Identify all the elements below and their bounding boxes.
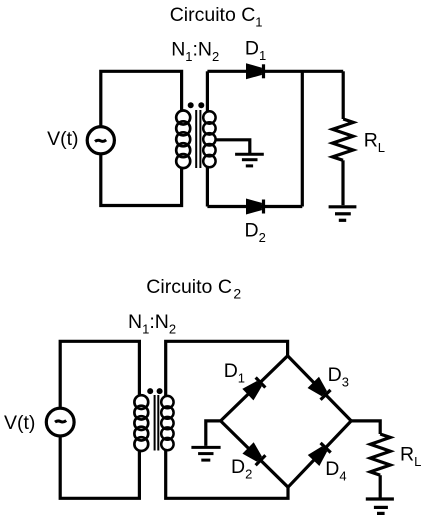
svg-text:V(t): V(t) bbox=[47, 128, 78, 150]
wire: C1 primary loop bottom bbox=[101, 154, 182, 206]
transformer T1 polarity dots bbox=[188, 102, 194, 108]
svg-text:D4: D4 bbox=[325, 458, 346, 484]
wire: bridge side top-right (D3 branch) bbox=[288, 356, 352, 421]
ground (C2 bridge reference) bbox=[191, 447, 220, 460]
svg-text:RL: RL bbox=[400, 444, 421, 470]
wire: C1 primary loop top (source to transformer) bbox=[101, 71, 182, 127]
svg-text:D3: D3 bbox=[328, 364, 349, 390]
wire: top rail to RL bbox=[342, 71, 345, 119]
transformer T2 secondary winding bbox=[161, 396, 173, 450]
diode D2 (bridge) bbox=[242, 442, 266, 466]
transformer T2 primary winding bbox=[134, 395, 148, 451]
transformer T1 secondary winding bbox=[203, 111, 215, 167]
source V(t) C1 bbox=[87, 127, 114, 154]
svg-text:Circuito C2: Circuito C2 bbox=[146, 276, 241, 302]
diode D1 bbox=[246, 63, 264, 79]
wire: C1 top rail through D1 bbox=[207, 70, 343, 73]
wire: bridge side bottom-right (D4 branch) bbox=[288, 421, 351, 487]
wire: C2 secondary top to bridge top vertex bbox=[166, 341, 288, 396]
wire: C1 secondary bottom lead bbox=[206, 168, 209, 207]
wire: bridge side left-bottom (D2 branch) bbox=[221, 421, 288, 487]
svg-text:Circuito C1: Circuito C1 bbox=[170, 4, 263, 30]
transformer T1 primary winding bbox=[176, 111, 190, 169]
diode D4 (bridge) bbox=[308, 442, 332, 466]
diode D3 (bridge) bbox=[308, 377, 332, 401]
wire: bridge right vertex to RL bbox=[351, 421, 380, 434]
wire: junction of D1/D2 cathodes bbox=[301, 71, 304, 206]
wire: C1 center tap to ground bbox=[215, 140, 250, 154]
svg-text:N1:N2: N1:N2 bbox=[128, 311, 176, 337]
resistor RL (C2) bbox=[370, 434, 390, 475]
svg-text:D1: D1 bbox=[224, 360, 245, 386]
wire: RL bottom to ground (C1) bbox=[341, 160, 344, 205]
wire: C1 bottom rail through D2 bbox=[207, 205, 302, 208]
wire: bridge side left-top (D1 branch) bbox=[221, 356, 288, 421]
transformer T2 polarity dots bbox=[147, 388, 153, 394]
wire: RL bottom to ground (C2) bbox=[379, 475, 382, 497]
transformer T2 core bbox=[154, 395, 156, 451]
source V(t) C2 bbox=[46, 408, 74, 436]
wire: C1 secondary top lead bbox=[206, 71, 209, 111]
svg-text:D1: D1 bbox=[245, 37, 266, 63]
resistor RL (C1) bbox=[333, 119, 354, 160]
svg-text:D2: D2 bbox=[245, 220, 266, 246]
diode D1 (bridge) bbox=[242, 377, 266, 401]
wire: C2 primary loop bottom bbox=[60, 436, 139, 498]
wire: C2 secondary bottom to bridge bottom vertex bbox=[166, 450, 288, 499]
ground (C1 center tap) bbox=[235, 154, 264, 166]
transformer T1 core bbox=[195, 110, 197, 168]
svg-text:RL: RL bbox=[364, 130, 385, 156]
wire: bridge left vertex to ground bbox=[206, 421, 221, 446]
ground (C2 load) bbox=[366, 499, 394, 513]
ground (C1 load) bbox=[329, 207, 357, 221]
svg-text:V(t): V(t) bbox=[4, 412, 35, 434]
svg-text:D2: D2 bbox=[231, 456, 252, 482]
diode D2 bbox=[246, 199, 264, 215]
wire: C2 primary loop top bbox=[60, 341, 139, 408]
svg-text:N1:N2: N1:N2 bbox=[171, 38, 219, 64]
